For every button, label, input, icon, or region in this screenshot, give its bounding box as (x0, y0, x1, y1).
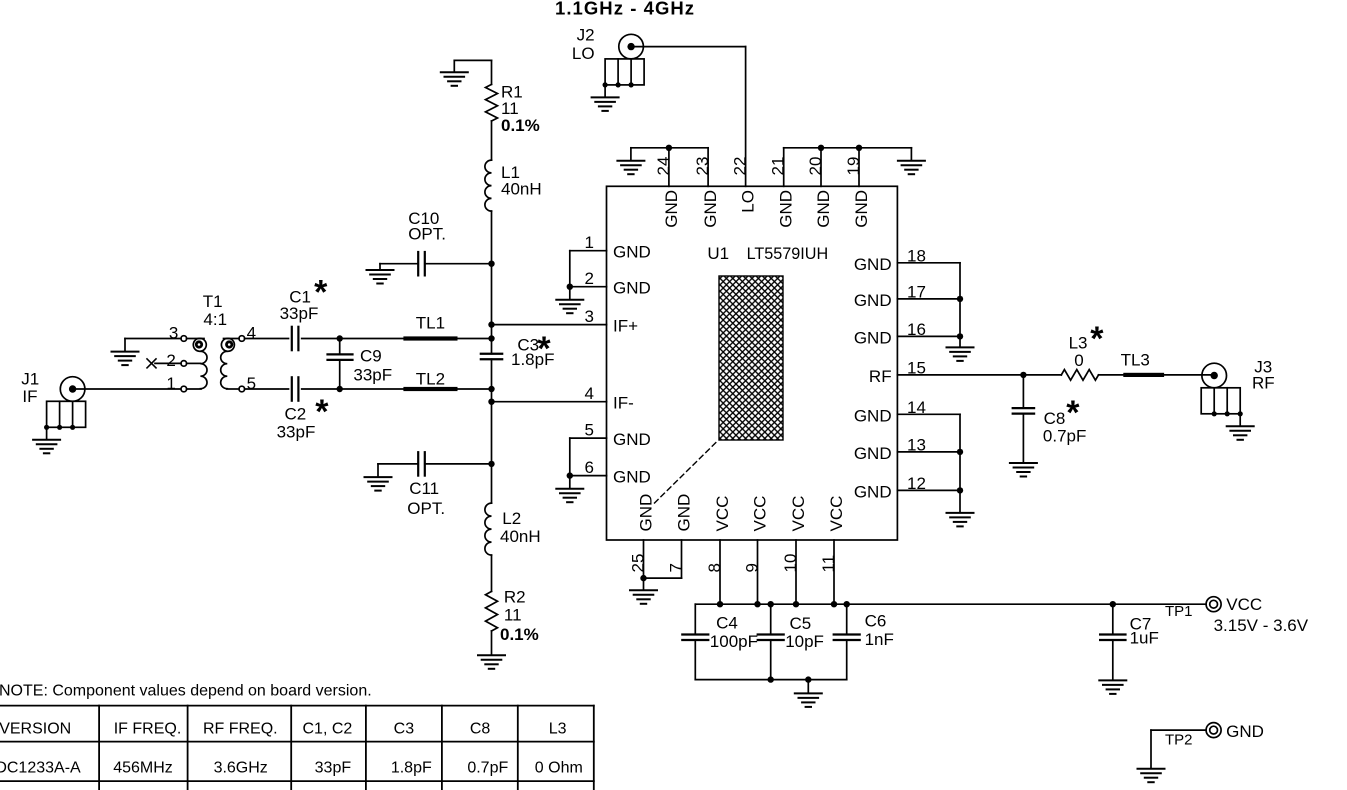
wire C11 ground stub (377, 464, 379, 476)
U1 pin 23 wire (707, 148, 709, 187)
ground TP2 (1138, 769, 1165, 783)
ground decoupling caps (795, 693, 822, 707)
svg-text:3: 3 (169, 324, 178, 343)
svg-text:1uF: 1uF (1130, 629, 1159, 648)
wire to ground pins 16-18 (959, 336, 961, 346)
svg-text:RF: RF (869, 367, 892, 386)
svg-text:TP2: TP2 (1165, 732, 1193, 749)
ground top left bus (617, 161, 644, 175)
svg-text:OPT.: OPT. (407, 499, 445, 518)
svg-text:GND: GND (854, 291, 892, 310)
wire T1 pin5 to C2 (245, 388, 289, 390)
wire C10 left (380, 263, 418, 265)
svg-text:11: 11 (819, 555, 838, 573)
svg-text:GND: GND (854, 444, 892, 463)
U1 pin 9 wire VCC (757, 540, 759, 604)
wire C5 lower lead (770, 640, 772, 680)
transmission line TL1 (403, 336, 457, 340)
svg-text:LO: LO (739, 190, 758, 213)
transformer T1 (181, 336, 245, 392)
svg-text:20: 20 (806, 157, 825, 176)
svg-text:C4: C4 (716, 613, 738, 632)
junction VCC bus x=1112.8 (1110, 601, 1116, 607)
U1 pin 12 wire GND (897, 489, 960, 491)
svg-text:25: 25 (629, 554, 648, 573)
U1 pin 25 wire (643, 540, 645, 578)
junction VCC bus x=720 (717, 601, 723, 607)
svg-text:0: 0 (1074, 351, 1083, 370)
svg-text:GND: GND (613, 430, 651, 449)
transmission line TL3 (1123, 373, 1164, 377)
svg-text:9: 9 (743, 563, 762, 572)
wire C9 upper lead (339, 339, 341, 355)
wire C1 to TL1 (302, 338, 404, 340)
svg-text:3: 3 (585, 307, 594, 326)
svg-text:C8: C8 (470, 720, 491, 737)
U1 pin 14 wire GND (897, 413, 960, 415)
svg-text:22: 22 (731, 157, 750, 176)
svg-text:GND: GND (662, 190, 681, 228)
no-connect X T1 pin2 (147, 359, 156, 368)
svg-text:GND: GND (613, 279, 651, 298)
svg-text:19: 19 (844, 157, 863, 176)
wire to ground pin25-7 (643, 578, 645, 589)
wire pin7 to pin25 (644, 577, 682, 579)
wire C6 upper lead (846, 604, 848, 634)
inductor L2 (485, 503, 492, 555)
capacitor C7 (1100, 633, 1125, 635)
svg-text:J2: J2 (577, 26, 595, 45)
svg-text:RF FREQ.: RF FREQ. (203, 720, 278, 737)
svg-text:6: 6 (585, 458, 594, 477)
svg-text:1: 1 (166, 374, 175, 393)
wire rail segment 6 (491, 631, 493, 654)
svg-text:C5: C5 (790, 614, 812, 633)
U1 pin 20 wire (820, 148, 822, 187)
U1 pin 19 wire (858, 148, 860, 187)
svg-text:1.8pF: 1.8pF (511, 350, 554, 369)
junction C9 bottom (337, 386, 343, 392)
junction pin6 gnd (567, 472, 573, 478)
wire C7 lower lead (1112, 640, 1114, 679)
svg-text:TL2: TL2 (416, 370, 445, 389)
junction IF+ on rail (488, 321, 494, 327)
junction C9 top (337, 335, 343, 341)
junction pin2 gnd (567, 284, 573, 290)
wire TL1 to rail (458, 338, 492, 340)
svg-text:33pF: 33pF (353, 366, 392, 385)
svg-text:C3: C3 (394, 720, 415, 737)
svg-text:GND: GND (854, 406, 892, 425)
wire TP2 horizontal (1151, 729, 1206, 731)
svg-text:*: * (1090, 320, 1104, 358)
connector J2 LO SMA (619, 34, 644, 59)
svg-text:1nF: 1nF (865, 630, 894, 649)
wire LO vertical to pin 22 (745, 47, 747, 187)
wire rail segment 5 (491, 555, 493, 591)
wire C5 upper lead (770, 604, 772, 634)
inductor L1 (485, 160, 492, 211)
junction VCC bus x=846.7 (844, 601, 850, 607)
svg-text:IF-: IF- (613, 394, 634, 413)
junction pin19 bus (856, 145, 862, 151)
svg-text:C11: C11 (409, 479, 439, 498)
svg-text:TP1: TP1 (1165, 603, 1193, 620)
ground pins 1-2 (556, 300, 583, 314)
svg-text:C6: C6 (865, 611, 887, 630)
junction VCC bus x=834 (831, 601, 837, 607)
wire pins 18-16 stub (959, 263, 961, 337)
ground C8 (1010, 463, 1037, 477)
svg-text:DC1233A-A: DC1233A-A (0, 759, 81, 776)
ground top right bus (898, 161, 925, 175)
svg-text:16: 16 (907, 320, 926, 339)
capacitor C6 (834, 633, 860, 635)
U1 pin 15 wire RF out (897, 374, 1023, 376)
wire C11 right (425, 463, 492, 465)
svg-text:IF: IF (22, 387, 37, 406)
svg-text:RF: RF (1252, 373, 1275, 392)
svg-text:R2: R2 (504, 588, 526, 607)
svg-text:L3: L3 (1069, 334, 1088, 353)
svg-text:2: 2 (585, 269, 594, 288)
svg-text:3.15V - 3.6V: 3.15V - 3.6V (1214, 616, 1309, 635)
wire J2 to pin22 horizontal (631, 46, 746, 48)
junction C8 tap (1020, 372, 1026, 378)
capacitor C5 (758, 633, 784, 635)
wire to ground pins 1-2 (569, 287, 571, 299)
ground pins 25-7 (630, 590, 657, 604)
svg-text:33pF: 33pF (315, 759, 352, 776)
capacitor C1 (291, 327, 293, 350)
U1 exposed pad crosshatch (719, 276, 783, 440)
U1 pin 17 wire GND (897, 298, 960, 300)
inductor L3 (1061, 370, 1098, 381)
svg-text:33pF: 33pF (280, 304, 319, 323)
U1 pin 7 wire (681, 540, 683, 578)
svg-text:GND: GND (777, 190, 796, 228)
svg-text:GND: GND (613, 468, 651, 487)
ground top of rail (441, 72, 468, 86)
junction pin20 bus (818, 145, 824, 151)
wire pins 14-12 stub (959, 414, 961, 490)
svg-text:40nH: 40nH (501, 180, 542, 199)
wire TL2 to rail (458, 388, 492, 390)
wire C4 upper lead (694, 604, 696, 634)
junction pin12 (957, 487, 963, 493)
ground pins 16-18 (947, 347, 974, 361)
svg-text:12: 12 (907, 474, 926, 493)
junction TL1 on rail (488, 335, 494, 341)
svg-text:LT5579IUH: LT5579IUH (747, 245, 829, 263)
connector J1 IF SMA (60, 377, 85, 402)
junction IF- on rail (488, 399, 494, 405)
op-amp U1 LT5579IUH body (607, 186, 898, 540)
ground pins 12-14 (947, 513, 974, 527)
resistor R2 (486, 591, 498, 631)
svg-text:GND: GND (637, 494, 656, 532)
wire to L3 (1023, 374, 1061, 376)
test point TP1 (1206, 597, 1221, 612)
wire TP2 vertical (1150, 730, 1152, 768)
U1 pin 1 wire GND (570, 250, 607, 252)
ground C7 (1099, 680, 1126, 694)
wire bus to ground left (630, 148, 632, 160)
U1 pin 4 wire IF- (492, 401, 607, 403)
ground T1 pin3 (112, 352, 139, 366)
svg-text:VCC: VCC (827, 496, 846, 532)
svg-text:NOTE: Component values depend: NOTE: Component values depend on board v… (0, 683, 372, 700)
svg-text:GND: GND (613, 243, 651, 262)
U1 pin 10 wire VCC (795, 540, 797, 604)
U1 pin 6 wire GND (570, 475, 607, 477)
U1 exposed pad dashed leader (655, 440, 719, 503)
wire T1 pin2 stub (155, 362, 181, 364)
svg-text:7: 7 (667, 563, 686, 572)
svg-text:C2: C2 (285, 405, 307, 424)
wire rail top to ground (454, 59, 491, 61)
svg-text:14: 14 (907, 398, 926, 417)
svg-text:456MHz: 456MHz (113, 759, 173, 776)
wire T1 pin3 to ground (125, 338, 181, 340)
U1 pin 3 wire IF+ (492, 324, 607, 326)
svg-text:1: 1 (585, 233, 594, 252)
ground C11 (365, 477, 392, 491)
wire T1 pin3 ground stub (124, 339, 126, 351)
svg-text:T1: T1 (203, 292, 223, 311)
wire C10 right (425, 263, 492, 265)
svg-text:LO: LO (572, 44, 595, 63)
svg-text:5: 5 (585, 421, 594, 440)
svg-text:17: 17 (907, 282, 926, 301)
svg-text:10: 10 (781, 554, 800, 573)
wire pin1-pin2 stub (569, 251, 571, 287)
wire C4 lower lead (694, 640, 696, 680)
svg-text:L3: L3 (549, 720, 567, 737)
wire ground stub top left (453, 60, 455, 71)
junction VCC bus x=796 (793, 601, 799, 607)
wire rail segment 2 (491, 121, 493, 160)
svg-text:GND: GND (1226, 722, 1264, 741)
svg-text:33pF: 33pF (277, 422, 316, 441)
wire C8 lower lead (1022, 414, 1024, 462)
capacitor C11 (417, 452, 419, 475)
wire bus to ground right (910, 148, 912, 160)
junction ground tap (805, 676, 811, 682)
junction pin16 (957, 333, 963, 339)
svg-text:VCC: VCC (1226, 595, 1262, 614)
wire C7 upper lead (1112, 604, 1114, 634)
wire rail segment 3 (491, 211, 493, 354)
svg-text:IF FREQ.: IF FREQ. (114, 720, 182, 737)
svg-text:VERSION: VERSION (0, 720, 71, 737)
svg-text:11: 11 (504, 606, 522, 625)
svg-text:TL3: TL3 (1121, 350, 1150, 369)
svg-text:*: * (315, 393, 329, 431)
svg-text:C1, C2: C1, C2 (303, 720, 353, 737)
svg-text:18: 18 (907, 246, 926, 265)
svg-text:0.7pF: 0.7pF (467, 759, 508, 776)
wire J1 to T1 pin1 (73, 388, 181, 390)
svg-text:4: 4 (247, 324, 256, 343)
svg-text:23: 23 (693, 157, 712, 176)
wire pin5-pin6 stub (569, 438, 571, 476)
connector J3 RF SMA (1202, 363, 1227, 388)
svg-text:24: 24 (654, 157, 673, 176)
VCC bus wire (695, 603, 1206, 605)
svg-text:100pF: 100pF (710, 632, 758, 651)
wire to ground pins 5-6 (569, 476, 571, 488)
ground bottom of rail (478, 655, 505, 669)
test point TP2 (1206, 723, 1221, 738)
svg-text:GND: GND (854, 328, 892, 347)
U1 pin 11 wire VCC (833, 540, 835, 604)
capacitor C9 (328, 353, 353, 355)
wire C11 left (378, 463, 418, 465)
wire C8 upper lead (1022, 375, 1024, 408)
svg-text:IF+: IF+ (613, 317, 638, 336)
capacitor C8 (1013, 407, 1034, 409)
junction TL2 on rail (488, 386, 494, 392)
svg-text:VCC: VCC (751, 496, 770, 532)
top left gnd bus (631, 147, 708, 149)
wire ground stub bottom bus (807, 680, 809, 693)
wire C6 lower lead (846, 640, 848, 680)
resistor R1 (486, 84, 498, 121)
junction VCC bus x=757.5 (754, 601, 760, 607)
svg-text:0.1%: 0.1% (501, 116, 540, 135)
junction pin13 (957, 449, 963, 455)
junction C10 on rail (488, 261, 494, 267)
U1 pin 2 wire GND (570, 286, 607, 288)
svg-text:0.1%: 0.1% (500, 625, 539, 644)
ground pins 5-6 (556, 489, 583, 503)
capacitor C3 (481, 353, 502, 355)
svg-text:GND: GND (701, 190, 720, 228)
svg-text:VCC: VCC (789, 496, 808, 532)
capacitor C4 (682, 633, 708, 635)
transmission line TL2 (403, 387, 457, 391)
svg-text:VCC: VCC (713, 496, 732, 532)
junction pin24 bus (666, 145, 672, 151)
svg-text:2: 2 (166, 351, 175, 370)
U1 pin 18 wire GND (897, 262, 960, 264)
U1 pin 13 wire GND (897, 451, 960, 453)
svg-text:21: 21 (769, 157, 788, 176)
svg-text:4: 4 (585, 384, 594, 403)
capacitor C2 (291, 377, 293, 400)
version table (0, 706, 594, 790)
U1 pin 5 wire GND (570, 437, 607, 439)
capacitor C10 (417, 252, 419, 275)
svg-text:C8: C8 (1044, 409, 1066, 428)
svg-text:GND: GND (854, 482, 892, 501)
svg-text:TL1: TL1 (416, 313, 445, 332)
junction pin17 (957, 296, 963, 302)
svg-text:OPT.: OPT. (408, 224, 446, 243)
svg-text:L2: L2 (502, 509, 521, 528)
junction C5 bottom (768, 676, 774, 682)
svg-text:0.7pF: 0.7pF (1043, 426, 1086, 445)
svg-text:GND: GND (814, 190, 833, 228)
svg-text:13: 13 (907, 435, 926, 454)
svg-text:0 Ohm: 0 Ohm (535, 759, 583, 776)
svg-text:C9: C9 (360, 347, 382, 366)
U1 pin 21 wire (783, 148, 785, 187)
wire C2 to TL2 (302, 388, 404, 390)
svg-text:10pF: 10pF (785, 632, 824, 651)
svg-text:8: 8 (705, 563, 724, 572)
svg-text:U1: U1 (707, 244, 729, 263)
U1 pin 8 wire VCC (719, 540, 721, 604)
svg-text:GND: GND (852, 190, 871, 228)
svg-text:4:1: 4:1 (203, 310, 227, 329)
svg-text:GND: GND (675, 494, 694, 532)
U1 pin 24 wire (668, 148, 670, 187)
junction VCC bus x=770.7 (768, 601, 774, 607)
decoupling ground bus (695, 679, 846, 681)
wire to ground pins 12-14 (959, 490, 961, 512)
junction C11 on rail (488, 461, 494, 467)
svg-text:GND: GND (854, 255, 892, 274)
top right gnd bus (784, 147, 912, 149)
wire C9 lower lead (339, 360, 341, 389)
svg-text:15: 15 (907, 358, 926, 377)
svg-text:J1: J1 (21, 370, 39, 389)
junction pin25 gnd (640, 575, 646, 581)
ground C10 (367, 270, 394, 284)
U1 pin 16 wire GND (897, 335, 960, 337)
svg-text:40nH: 40nH (500, 527, 541, 546)
wire C10 ground stub (379, 264, 381, 269)
wire L3 to TL3 (1099, 374, 1124, 376)
svg-text:5: 5 (247, 374, 256, 393)
wire rail segment 4 (491, 359, 493, 503)
wire TL3 to J3 (1164, 374, 1214, 376)
wire T1 pin4 to C1 (245, 338, 289, 340)
wire rail segment 1 (491, 60, 493, 84)
svg-text:3.6GHz: 3.6GHz (214, 759, 268, 776)
svg-text:1.1GHz - 4GHz: 1.1GHz - 4GHz (555, 0, 695, 19)
svg-text:1.8pF: 1.8pF (391, 759, 432, 776)
